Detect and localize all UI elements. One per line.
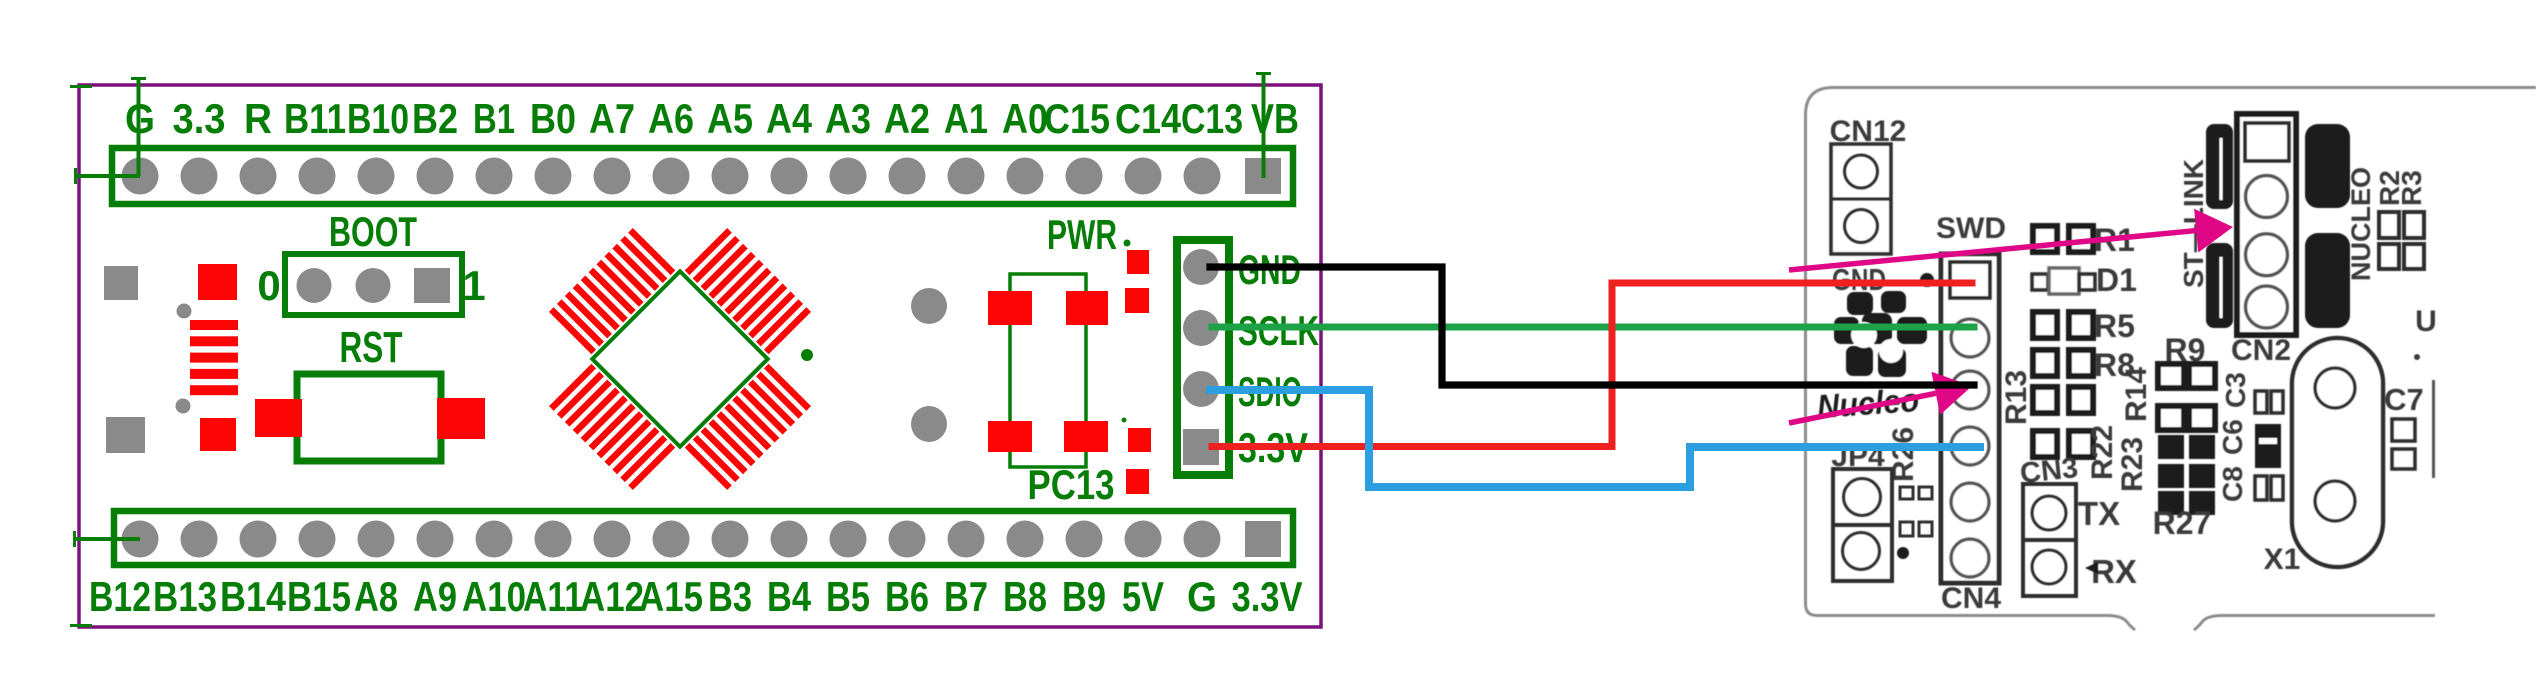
- svg-text:R5: R5: [2094, 308, 2135, 344]
- svg-text:C3: C3: [2220, 372, 2251, 408]
- svg-text:R14: R14: [2120, 367, 2153, 422]
- svg-text:B4: B4: [767, 573, 812, 620]
- svg-text:B12: B12: [89, 573, 151, 620]
- svg-text:R27: R27: [2153, 505, 2212, 541]
- svg-text:CN2: CN2: [2231, 334, 2291, 367]
- svg-text:5V: 5V: [1122, 573, 1164, 620]
- svg-text:A1: A1: [944, 95, 988, 142]
- svg-text:1: 1: [462, 262, 485, 309]
- svg-text:R22: R22: [2086, 425, 2119, 480]
- svg-text:B14: B14: [220, 573, 287, 620]
- svg-text:SWD: SWD: [1936, 212, 2006, 245]
- svg-text:B8: B8: [1003, 573, 1047, 620]
- svg-text:A15: A15: [639, 573, 703, 620]
- svg-text:0: 0: [257, 262, 280, 309]
- svg-text:B1: B1: [473, 95, 515, 142]
- svg-text:B9: B9: [1062, 573, 1106, 620]
- svg-text:3.3: 3.3: [173, 95, 226, 142]
- svg-text:B11: B11: [284, 95, 346, 142]
- svg-text:VB: VB: [1251, 95, 1299, 142]
- svg-text:R13: R13: [2000, 370, 2033, 425]
- svg-text:A6: A6: [648, 95, 694, 142]
- svg-text:R: R: [244, 95, 272, 142]
- svg-text:C15: C15: [1044, 95, 1110, 142]
- svg-text:B3: B3: [708, 573, 752, 620]
- svg-text:A7: A7: [589, 95, 635, 142]
- svg-text:G: G: [1187, 573, 1217, 620]
- svg-text:C14: C14: [1115, 95, 1182, 142]
- svg-text:A5: A5: [707, 95, 753, 142]
- svg-text:A12: A12: [580, 573, 644, 620]
- svg-text:B5: B5: [826, 573, 870, 620]
- svg-text:D1: D1: [2096, 262, 2137, 298]
- svg-text:C7: C7: [2384, 382, 2424, 417]
- svg-text:B2: B2: [412, 95, 458, 142]
- svg-text:CN4: CN4: [1941, 582, 2001, 615]
- svg-text:G: G: [125, 95, 155, 142]
- svg-text:B10: B10: [347, 95, 409, 142]
- svg-text:A10: A10: [462, 573, 526, 620]
- svg-text:PC13: PC13: [1028, 461, 1115, 508]
- svg-text:TX: TX: [2078, 495, 2120, 532]
- svg-text:U: U: [2415, 305, 2437, 338]
- svg-text:C13: C13: [1181, 95, 1243, 142]
- svg-text:3.3V: 3.3V: [1232, 573, 1303, 620]
- svg-text:B13: B13: [153, 573, 217, 620]
- svg-text:NUCLEO: NUCLEO: [2346, 167, 2376, 281]
- svg-text:R23: R23: [2116, 437, 2149, 492]
- svg-text:A9: A9: [413, 573, 457, 620]
- svg-text:A8: A8: [354, 573, 398, 620]
- svg-text:C8: C8: [2217, 466, 2248, 502]
- svg-text:B6: B6: [885, 573, 929, 620]
- svg-text:A0: A0: [1002, 95, 1048, 142]
- svg-text:B15: B15: [287, 573, 351, 620]
- svg-text:A4: A4: [766, 95, 813, 142]
- svg-text:BOOT: BOOT: [329, 208, 417, 255]
- svg-text:A3: A3: [825, 95, 871, 142]
- svg-text:RST: RST: [340, 323, 403, 372]
- svg-text:X1: X1: [2264, 543, 2301, 576]
- svg-text:PWR: PWR: [1047, 211, 1117, 258]
- svg-text:R3: R3: [2396, 170, 2427, 206]
- svg-text:A11: A11: [523, 573, 583, 620]
- svg-text:A2: A2: [884, 95, 930, 142]
- svg-text:C6: C6: [2217, 419, 2248, 455]
- svg-text:B7: B7: [944, 573, 988, 620]
- svg-text:B0: B0: [530, 95, 576, 142]
